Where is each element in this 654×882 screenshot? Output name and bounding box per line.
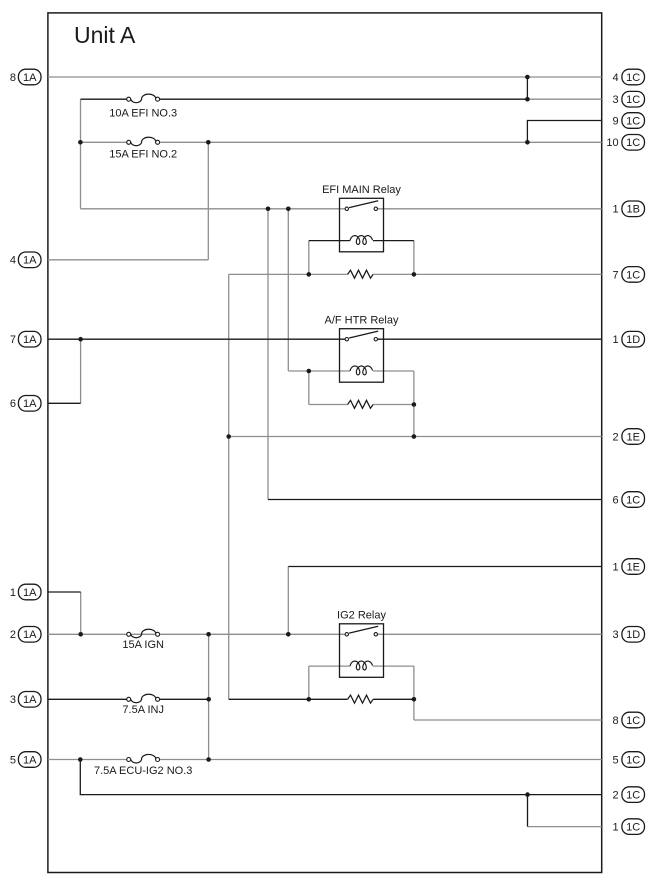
wire EFI coil left drop: [308, 241, 310, 275]
wire IG2 resistor line left: [229, 698, 348, 700]
wire fuse output bus vertical: [208, 634, 210, 759]
svg-text:1A: 1A: [23, 334, 37, 346]
svg-text:1C: 1C: [626, 822, 640, 834]
svg-text:1A: 1A: [23, 255, 37, 267]
wire branch to A/F coil vertical: [287, 209, 289, 371]
wire branch down to 1(1C): [527, 795, 529, 827]
wire to pin 6(1C): [268, 499, 602, 501]
junction 1(1E) branch on 2(1A) wire: [286, 632, 291, 637]
svg-text:1E: 1E: [626, 561, 639, 573]
svg-text:3: 3: [612, 629, 618, 641]
svg-text:IG2 Relay: IG2 Relay: [337, 610, 386, 622]
svg-text:1: 1: [612, 334, 618, 346]
resistor A/F HTR relay: [348, 400, 374, 408]
junction node on 8(1A)-4(1C) wire: [525, 75, 530, 80]
wire 2(1A) to IG2 switch: [48, 633, 345, 635]
pin 8 connector 1A: [10, 69, 41, 85]
wire 7(1A)-6(1A) vertical: [80, 339, 82, 403]
svg-text:2: 2: [612, 431, 618, 443]
relay IG2 switch: [345, 626, 378, 636]
pin 2 connector 1C: [612, 787, 644, 803]
svg-text:4: 4: [10, 255, 16, 267]
svg-text:1: 1: [10, 587, 16, 599]
pin 2 connector 1A: [10, 627, 41, 643]
svg-text:15A EFI NO.2: 15A EFI NO.2: [109, 148, 177, 160]
svg-text:7: 7: [612, 269, 618, 281]
pin 2 connector 1E: [612, 429, 644, 445]
wire to pin 1(1C): [528, 826, 602, 828]
wire A/F coil right drop to 2(1E): [413, 371, 415, 437]
wire 3(1A) to fuse INJ: [48, 698, 127, 700]
svg-text:7.5A ECU-IG2 NO.3: 7.5A ECU-IG2 NO.3: [94, 765, 192, 777]
svg-text:1C: 1C: [626, 790, 640, 802]
wire branch to 9(1C) elbow: [527, 121, 601, 143]
wire EFI coil line right: [373, 240, 414, 242]
junction fuse IGN output branch: [206, 632, 211, 637]
fuse 7.5A INJ: [122, 694, 164, 716]
junction fuse INJ output on bus: [206, 697, 211, 702]
svg-text:1E: 1E: [626, 431, 639, 443]
fuse 15A EFI NO.2: [109, 137, 177, 160]
wire IG2 coil stub left: [309, 665, 350, 667]
wire IG2 coil right drop to 8(1C): [413, 666, 415, 720]
svg-text:1: 1: [612, 822, 618, 834]
pin 6 connector 1C: [612, 492, 644, 508]
svg-text:1C: 1C: [626, 115, 640, 127]
svg-text:1C: 1C: [626, 137, 640, 149]
pin 9 connector 1C: [612, 113, 644, 129]
wire 7(1C) net vertical down to IG2: [228, 274, 230, 699]
svg-text:7.5A INJ: 7.5A INJ: [122, 704, 164, 716]
wire 8(1A) to 4(1C) net: [48, 76, 602, 78]
svg-text:1A: 1A: [23, 629, 37, 641]
junction EFI coil left on 7(1C) wire: [307, 272, 312, 277]
wire 7(1C) net right segment: [373, 273, 602, 275]
pin 10 connector 1C: [606, 135, 644, 151]
wire branch to 6(1C) vertical: [267, 209, 269, 500]
junction IG2 coil right on resistor line: [412, 697, 417, 702]
wire 1(1A) branch vertical: [80, 592, 82, 634]
wire fuse EFI NO.2 input: [81, 141, 127, 143]
resistor EFI MAIN relay: [348, 270, 374, 278]
pin 1 connector 1A: [10, 584, 41, 600]
svg-text:1C: 1C: [626, 754, 640, 766]
wire IG2 resistor line right: [373, 698, 414, 700]
svg-text:Unit A: Unit A: [74, 22, 136, 48]
pin 5 connector 1C: [612, 752, 644, 768]
svg-text:4: 4: [612, 72, 618, 84]
junction 6(1A) branch on 7(1A) wire: [78, 337, 83, 342]
svg-text:9: 9: [612, 115, 618, 127]
junction 1(1C) branch on 2(1C) wire: [525, 792, 530, 797]
svg-text:EFI MAIN Relay: EFI MAIN Relay: [322, 184, 401, 196]
svg-text:8: 8: [612, 715, 618, 727]
relay A/F HTR box: [340, 329, 384, 383]
junction bus to fuse EFI NO.2: [78, 140, 83, 145]
svg-text:7: 7: [10, 334, 16, 346]
svg-text:10: 10: [606, 137, 618, 149]
svg-text:8: 8: [10, 72, 16, 84]
svg-text:1A: 1A: [23, 587, 37, 599]
wire IG2 switch to 3(1D): [378, 633, 602, 635]
svg-text:6: 6: [612, 494, 618, 506]
wire 7(1A) to A/F switch: [48, 338, 345, 340]
resistor IG2 relay: [348, 695, 374, 703]
wire EFI MAIN switch feed: [81, 208, 346, 210]
svg-text:1A: 1A: [23, 398, 37, 410]
svg-text:15A IGN: 15A IGN: [122, 639, 164, 651]
svg-text:2: 2: [10, 629, 16, 641]
wire pin 6(1A) stub: [48, 402, 81, 404]
wire fuse ECU-IG2 output to 5(1C): [160, 759, 602, 761]
svg-text:1C: 1C: [626, 269, 640, 281]
svg-text:1A: 1A: [23, 754, 37, 766]
svg-text:3: 3: [10, 694, 16, 706]
pin 5 connector 1A: [10, 752, 41, 768]
relay A/F HTR coil: [350, 366, 372, 375]
wire fuse EFI NO.3 output: [160, 98, 528, 100]
svg-text:1: 1: [612, 561, 618, 573]
wire 5(1A) to fuse ECU-IG2: [48, 759, 127, 761]
junction A/F coil drop on 2(1E) wire: [412, 434, 417, 439]
wire fuse EFI NO.3 input stub: [81, 98, 127, 100]
wire EFI coil right drop: [413, 241, 415, 275]
svg-text:10A EFI NO.3: 10A EFI NO.3: [109, 108, 177, 120]
junction IG2 coil left on resistor line: [307, 697, 312, 702]
svg-text:1D: 1D: [626, 334, 640, 346]
wire fuse EFI NO.2 output to 10(1C): [160, 141, 602, 143]
wire A/F switch to 1(1D): [378, 338, 602, 340]
svg-text:1B: 1B: [626, 204, 639, 216]
pin 4 connector 1C: [612, 69, 644, 85]
wire 7(1C) net left segment: [229, 273, 348, 275]
wire battery bus vertical: [80, 99, 82, 209]
svg-text:2: 2: [612, 790, 618, 802]
wire 5(1A) branch to 2(1C): [80, 760, 601, 795]
svg-text:1C: 1C: [626, 94, 640, 106]
svg-text:1C: 1C: [626, 494, 640, 506]
junction 1(1A) branch on 2(1A) wire: [78, 632, 83, 637]
junction A/F coil branch: [286, 207, 291, 212]
pin 3 connector 1D: [612, 627, 644, 643]
pin 1 connector 1D: [612, 331, 644, 347]
wire EFI MAIN switch to 1(1B): [378, 208, 602, 210]
fuse 15A IGN: [122, 629, 164, 651]
svg-text:1A: 1A: [23, 72, 37, 84]
junction on 2(1E) wire left: [226, 434, 231, 439]
wire to pin 1(1E): [288, 566, 601, 568]
wire to pin 4(1A): [48, 259, 208, 261]
svg-text:1C: 1C: [626, 715, 640, 727]
junction A/F resistor right: [412, 402, 417, 407]
junction 6(1C) branch: [266, 207, 271, 212]
svg-text:1D: 1D: [626, 629, 640, 641]
svg-text:A/F HTR Relay: A/F HTR Relay: [325, 315, 399, 327]
relay EFI MAIN box: [340, 198, 384, 252]
svg-text:6: 6: [10, 398, 16, 410]
junction 2(1C) branch on 5(1A) wire: [78, 757, 83, 762]
svg-text:1A: 1A: [23, 694, 37, 706]
fuse 7.5A ECU-IG2 NO.3: [94, 754, 192, 777]
relay IG2 coil: [350, 661, 372, 670]
pin 7 connector 1C: [612, 267, 644, 283]
wire A/F coil line left: [288, 370, 350, 372]
junction A/F resistor left on coil line: [307, 369, 312, 374]
pin 1 connector 1E: [612, 559, 644, 575]
pin 3 connector 1A: [10, 692, 41, 708]
svg-text:5: 5: [10, 754, 16, 766]
pin 3 connector 1C: [612, 91, 644, 107]
pin 1 connector 1C: [612, 819, 644, 835]
svg-text:5: 5: [612, 754, 618, 766]
junction 9(1C) branch on 10(1C) wire: [525, 140, 530, 145]
wire branch down to 4(1A): [207, 142, 209, 259]
svg-text:1C: 1C: [626, 72, 640, 84]
wire EFI coil line left: [309, 240, 350, 242]
junction bus on fuse ECU-IG2 output: [206, 757, 211, 762]
relay IG2 box: [340, 624, 384, 678]
relay A/F HTR switch: [345, 331, 378, 341]
pin 6 connector 1A: [10, 396, 41, 412]
relay EFI MAIN switch: [345, 201, 378, 211]
pin 4 connector 1A: [10, 252, 41, 268]
wire jumper 4(1C)-3(1C): [526, 77, 528, 99]
wire 2(1E) net: [229, 436, 602, 438]
pin 8 connector 1C: [612, 712, 644, 728]
wire A/F coil line right: [373, 370, 414, 372]
wire A/F resistor lead right: [373, 404, 414, 406]
junction EFI coil right on 7(1C) wire: [412, 272, 417, 277]
wire to pin 8(1C): [414, 719, 602, 721]
relay EFI MAIN coil: [350, 236, 372, 245]
wire IG2 coil stub right: [373, 665, 414, 667]
svg-text:3: 3: [612, 94, 618, 106]
wire IG2 coil left drop: [308, 666, 310, 699]
fuse 10A EFI NO.3: [109, 94, 177, 119]
junction node on 3(1C) wire: [525, 97, 530, 102]
pin 7 connector 1A: [10, 331, 41, 347]
pin 1 connector 1B: [612, 201, 644, 217]
wire A/F resistor lead left: [309, 404, 348, 406]
wire 1(1E) branch vertical: [287, 567, 289, 635]
junction fuse EFI NO.2 output branch: [206, 140, 211, 145]
wire fuse INJ output to bus: [160, 698, 209, 700]
svg-text:1: 1: [612, 204, 618, 216]
wire to pin 3(1C): [527, 98, 601, 100]
wire A/F resistor left drop: [308, 371, 310, 405]
wire pin 1(1A) stub: [48, 591, 81, 593]
